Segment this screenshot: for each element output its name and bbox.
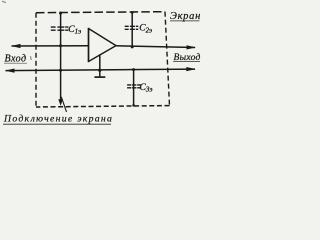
- capacitor C3э plates: [127, 85, 141, 88]
- op-amp U1: [89, 28, 117, 62]
- ground (chassis) stub below op-amp: [94, 54, 105, 77]
- wire output (top, from op-amp apex to right arrow): [116, 45, 196, 49]
- capacitor C1э wire (input node to shield top): [59, 12, 62, 72]
- shield box left edge: [35, 13, 37, 107]
- leader line from label to screen connection: [61, 97, 66, 112]
- capacitor C2э plates: [125, 26, 139, 29]
- svg-text:Подключение экрана: Подключение экрана: [3, 114, 113, 125]
- capacitor C2э wire (output node to shield top): [131, 11, 134, 48]
- wire input (top, from left arrow to op-amp): [11, 44, 89, 48]
- paper speck top-left corner: [2, 1, 6, 2]
- paper speck right of Вход label: [30, 56, 33, 60]
- shield box top edge: [36, 12, 165, 13]
- svg-text:Экран: Экран: [170, 11, 201, 22]
- label Подключение экрана: [3, 114, 113, 125]
- screen connection wire with down arrow: [58, 70, 63, 106]
- label Экран: [170, 11, 201, 22]
- capacitor C3э wire (common node to shield bottom): [132, 68, 135, 107]
- shield box right edge: [165, 12, 170, 106]
- label Вход: [4, 54, 27, 65]
- svg-text:Вход: Вход: [5, 54, 27, 65]
- capacitor C1э plates: [51, 27, 69, 30]
- label Выход: [173, 52, 200, 63]
- shield box bottom edge: [36, 106, 170, 107]
- wire common (bottom, full width): [5, 67, 196, 73]
